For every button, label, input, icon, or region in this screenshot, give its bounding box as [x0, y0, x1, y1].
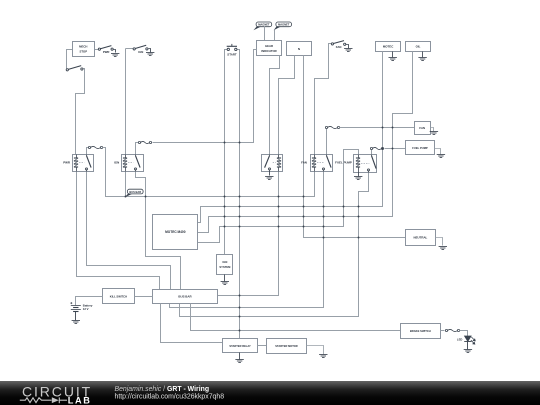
push button START S1 — [227, 44, 237, 51]
wire STARTER RELAY to STARTER MOTOR — [258, 345, 267, 347]
switch FAN SW4 — [331, 41, 346, 46]
svg-text:BUS BAR: BUS BAR — [178, 295, 192, 299]
svg-text:MECH: MECH — [79, 44, 87, 48]
junction at (224.7,143) — [224, 142, 226, 144]
svg-text:IGN: IGN — [114, 161, 119, 165]
box BRAKE SWITCH U12 — [401, 324, 441, 339]
box FUEL PUMP (pump motor) M2 — [406, 141, 435, 155]
fuse F2 at IGN relay — [138, 141, 151, 143]
svg-text:BUS BAR: BUS BAR — [129, 190, 141, 194]
box NEUTRAL U6 — [406, 230, 436, 246]
net flag MAGNET 2 — [276, 22, 292, 27]
svg-text:STARTER RELAY: STARTER RELAY — [229, 344, 251, 348]
junction at (303.8,196.7) — [303, 196, 305, 198]
junction at (358.2,206.4) — [358, 206, 360, 208]
junction at (358.2,216.8) — [358, 216, 360, 218]
relay PWR K1 — [73, 155, 94, 172]
svg-text:MOTEC M400: MOTEC M400 — [165, 230, 186, 234]
junction at (239.7,143) — [239, 142, 241, 144]
svg-text:NEUTRAL: NEUTRAL — [413, 235, 427, 239]
wire IGN node to IGN relay coil+ (vertical x126) — [125, 49, 127, 155]
net flag BUS BAR — [127, 189, 143, 194]
ground at IGN SYSTEM — [221, 282, 229, 285]
junction at (343.4,216.8) — [343, 216, 345, 218]
junction at (323.7,237.05) — [323, 237, 325, 239]
wire mech switch to PWR relay coil+ — [76, 69, 85, 155]
wire LED cathode to ground — [467, 342, 469, 350]
svg-text:STARTER MOTOR: STARTER MOTOR — [275, 344, 298, 348]
wire N box pin2 down to NEUTRAL box (row y237) — [304, 56, 406, 238]
wire IGN switch to ground stub — [149, 49, 151, 53]
junction at (323.7,206.4) — [323, 206, 325, 208]
svg-text:PWR: PWR — [103, 50, 110, 54]
junction at (278.9,216.8) — [278, 216, 280, 218]
ground at MOTEC box — [389, 58, 397, 61]
CircuitLab logo resistor-diode glyph — [20, 397, 67, 403]
wire FAN switch to ground stub — [346, 45, 349, 49]
net flag MAGNET 1 — [256, 22, 272, 27]
box STARTER RELAY U11 — [223, 339, 258, 353]
wire STARTER MOTOR right pin to ground stub — [307, 346, 324, 355]
wire bus-bar bottom pin4 to BRAKE SWITCH left pin (row y330.8) — [191, 304, 401, 331]
box MECH STOP U1 — [73, 42, 95, 57]
box GEAR INDICATOR U2 — [257, 41, 282, 56]
ground at NEUTRAL box — [439, 247, 447, 250]
ground at gear relay — [265, 177, 273, 180]
svg-text:MOTEC: MOTEC — [383, 44, 394, 48]
junction at (239.7,206.4) — [239, 206, 241, 208]
wire START right terminal to vertical x239.7 down to STARTER RELAY — [237, 50, 240, 339]
wire MECH STOP left pin to mech switch — [67, 50, 73, 69]
wire NEUTRAL right pin to ground stub — [436, 238, 443, 246]
junction at (145.8,196.7) — [145, 196, 147, 198]
box KILL SWITCH U10 — [103, 289, 135, 304]
ground at OIL box — [418, 58, 426, 61]
ground at STARTER RELAY — [235, 360, 243, 363]
wire STARTER RELAY ground stub — [239, 353, 241, 360]
svg-text:12 V: 12 V — [83, 307, 89, 311]
wire MECH STOP right pin to PWR switch — [95, 49, 99, 51]
wire MAGNET1 to GEAR INDICATOR top pin — [264, 27, 266, 41]
wire OIL ground stub — [422, 52, 424, 58]
footer bar — [0, 381, 540, 405]
svg-text:PWR: PWR — [63, 161, 71, 165]
svg-text:LED: LED — [457, 337, 462, 341]
ground at IGN switch — [146, 53, 154, 56]
ground at LED — [464, 350, 472, 353]
wire FAN relay common stub up to fuse — [326, 129, 328, 155]
svg-text:KILL SWITCH: KILL SWITCH — [110, 294, 127, 298]
fuse F3 at FAN relay — [325, 126, 339, 128]
ground at FUEL PUMP box — [437, 155, 445, 158]
box N (neutral light) U3 — [287, 42, 312, 56]
relay FAN K4 — [311, 155, 333, 172]
wire PWR relay NO down to bus-bar top pin2 — [87, 172, 171, 290]
junction at (303.8,226.9) — [303, 226, 305, 228]
box IGN SYSTEM U8 — [217, 255, 233, 275]
junction at (239.7,226.9) — [239, 226, 241, 228]
box MOTEC M400 U7 (ECU) — [153, 215, 198, 250]
junction at (224.7,226.9) — [224, 226, 226, 228]
ground at battery — [72, 321, 80, 324]
junction at (278.9,196.7) — [278, 196, 280, 198]
junction at (323.7,226.9) — [323, 226, 325, 228]
svg-text:OIL: OIL — [416, 44, 421, 48]
wire FAN switch feed down to FAN relay coil+ — [315, 44, 332, 155]
wire fuse F1 to +12V bus (row y196.7) ending at FAN relay coil- — [103, 148, 315, 197]
svg-text:SYSTEM: SYSTEM — [219, 265, 231, 269]
junction at (358.2,237.05) — [358, 237, 360, 239]
wire IGN relay common stub up to fuse — [136, 143, 139, 155]
svg-text:FUEL PUMP: FUEL PUMP — [412, 146, 428, 150]
wire PWR switch to ground stub — [114, 50, 116, 53]
junction at (392.6,148.2) — [392, 148, 394, 150]
wire FAN relay NO down to bus-bar bottom pin2 (row y307.8) — [170, 172, 324, 308]
wire battery - to ground — [75, 312, 77, 321]
switch mech-stop interlock SW1 — [66, 66, 83, 71]
junction at (343.4,206.4) — [343, 206, 345, 208]
svg-text:STOP: STOP — [80, 49, 88, 53]
wire gear relay coil- down to BUS BAR box right pin — [218, 172, 279, 296]
relay IGN K2 — [122, 155, 144, 172]
box BUS BAR U9 — [153, 290, 218, 304]
wire FUEL PUMP box to ground stub — [435, 149, 441, 155]
junction at (239.7,307.8) — [239, 307, 241, 309]
box MOTEC U4 — [376, 42, 401, 52]
svg-text:GEAR: GEAR — [265, 44, 273, 48]
wire fuse F4 to FUEL PUMP box — [385, 148, 406, 150]
wire fuse F5 to LED anode — [460, 331, 468, 337]
svg-text:FAN: FAN — [419, 126, 425, 130]
ground at FAN box — [430, 132, 438, 135]
svg-text:START: START — [227, 53, 237, 57]
junction at (239.7,196.7) — [239, 196, 241, 198]
wire FUEL PUMP relay coil- ground stub — [358, 173, 360, 177]
svg-text:IGN: IGN — [223, 260, 228, 264]
svg-text:FAN: FAN — [336, 45, 342, 49]
svg-text:BRAKE SWITCH: BRAKE SWITCH — [410, 329, 431, 333]
junction at (125.7,196.7) — [125, 196, 127, 198]
wire PWR relay coil- down to bus-bar top pin1 — [77, 172, 160, 290]
wire FUEL PUMP relay common stub to fuse — [371, 150, 373, 155]
ground at PWR switch — [111, 54, 119, 57]
junction at (303.8,216.8) — [303, 216, 305, 218]
wire START left terminal to vertical x224.7 down to IGN SYSTEM — [225, 50, 228, 255]
junction at (224.7,196.7) — [224, 196, 226, 198]
wire FUEL PUMP relay coil+ up and over to vertical x343.4 down row R3 to MOTEC M400 pin3 — [198, 150, 359, 243]
LED D1 brake light — [464, 336, 475, 344]
fuse F5 at brake light — [445, 329, 459, 331]
junction at (323.7,216.8) — [323, 216, 325, 218]
box FAN (fan motor) M1 — [415, 122, 431, 135]
ground at STARTER MOTOR — [319, 355, 327, 358]
junction at (278.9,206.4) — [278, 206, 280, 208]
svg-text:N: N — [298, 47, 300, 51]
junction at (239.7,295.5) — [239, 295, 241, 297]
ground at FAN switch — [344, 49, 352, 52]
wire MOTEC pin down x382.7 then row R1 to MOTEC M400 pin1 — [198, 52, 383, 223]
junction at (239.7,316.1) — [239, 316, 241, 318]
wire GEAR INDICATOR bottom pin to gear relay common — [270, 56, 280, 155]
junction at (303.8,206.4) — [303, 206, 305, 208]
wire MAGNET2 to GEAR INDICATOR top pin 2 — [274, 30, 276, 41]
wire PWR relay common stub up to fuse — [87, 148, 89, 155]
junction at (239.7,330.8) — [239, 330, 241, 332]
wire KILL SWITCH left pin to battery + — [76, 297, 103, 306]
ground at FUEL PUMP relay — [354, 177, 362, 180]
wire BRAKE SWITCH right pin to fuse — [441, 330, 445, 332]
wire MOTEC ground stub — [392, 52, 394, 58]
battery V1 12V — [70, 302, 81, 311]
junction at (392.6,127.3) — [392, 127, 394, 129]
relay gear K3 (mirrored) — [262, 155, 283, 172]
fuse F4 at FUEL PUMP relay — [370, 147, 383, 149]
box OIL U5 — [406, 42, 431, 52]
wire fuse F3 to FAN box — [340, 127, 415, 129]
junction at (382.9,148.2) — [382, 148, 384, 150]
wire OIL pin down x412.9 elbow x392.6 then row R2 to MOTEC M400 pin2 — [198, 52, 413, 233]
svg-text:MAGNET: MAGNET — [278, 23, 290, 27]
wire FAN box to ground stub — [431, 128, 434, 132]
switch PWR SW2 — [98, 46, 113, 51]
svg-text:Benjamin.sehic / GRT - Wiring: Benjamin.sehic / GRT - Wiring — [115, 386, 210, 393]
svg-text:INDICATOR: INDICATOR — [261, 49, 276, 53]
switch IGN SW3 — [133, 45, 148, 50]
wire IGN SYSTEM ground stub — [224, 275, 226, 282]
junction at (278.9,226.9) — [278, 226, 280, 228]
wire GEAR INDICATOR left pin to IGN relay fuse (row y143) — [153, 50, 257, 143]
junction at (224.7,216.8) — [224, 216, 226, 218]
box STARTER MOTOR M3 — [267, 339, 307, 354]
wire FUEL PUMP relay NO down to bus-bar bottom pin3 (row y316.1) — [180, 173, 369, 317]
wire gear relay NO to ground stub — [269, 172, 271, 176]
svg-text:FAN: FAN — [301, 161, 307, 165]
junction at (382.7,127.3) — [382, 127, 384, 129]
junction at (224.7,206.4) — [224, 206, 226, 208]
svg-text:http://circuitlab.com/cu326kkp: http://circuitlab.com/cu326kkpx7qh8 — [115, 394, 225, 401]
relay FUEL PUMP K5 — [354, 155, 377, 173]
wire bus-bar bottom pin1 to STARTER RELAY left pin — [161, 304, 223, 343]
wire KILL SWITCH right pin to BUS BAR left pin — [135, 296, 153, 298]
svg-text:LAB: LAB — [68, 395, 92, 405]
wire IGN node horizontal to IGN switch — [126, 48, 134, 50]
fuse F1 at PWR relay — [88, 146, 102, 148]
wire IGN relay coil- to bus — [125, 172, 127, 197]
junction at (239.7,216.8) — [239, 216, 241, 218]
wire N box pin1 to gear relay coil+ — [279, 56, 295, 155]
svg-text:MAGNET: MAGNET — [258, 23, 270, 27]
wire IGN relay NO to bus-bar top pin3 — [136, 172, 181, 290]
svg-text:IGN: IGN — [138, 50, 143, 54]
